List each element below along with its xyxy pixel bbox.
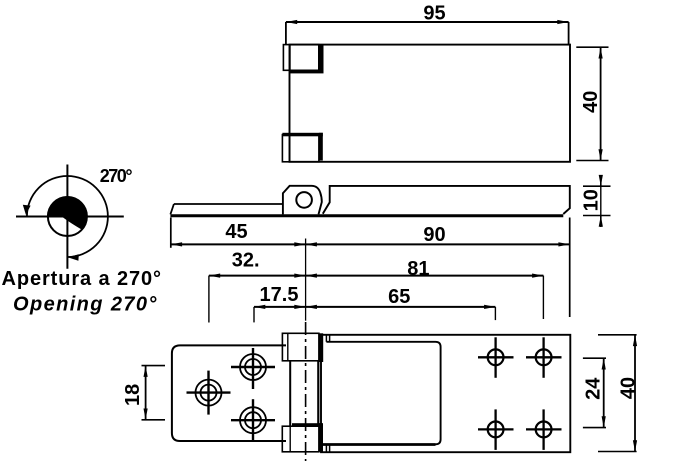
svg-text:65: 65 [388,286,410,308]
svg-text:270°: 270° [100,166,133,186]
svg-text:95: 95 [423,3,445,25]
svg-text:40: 40 [580,91,602,113]
svg-text:Opening 270°: Opening 270° [13,294,158,316]
svg-text:90: 90 [423,224,445,246]
svg-text:10: 10 [581,189,603,211]
svg-text:81: 81 [407,258,429,280]
svg-text:24: 24 [582,377,604,400]
svg-text:Apertura a 270°: Apertura a 270° [2,268,162,290]
svg-text:18: 18 [122,384,144,406]
svg-text:40: 40 [617,377,639,399]
svg-text:45: 45 [225,221,247,243]
svg-text:32.: 32. [232,250,260,272]
svg-text:17.5: 17.5 [260,284,299,306]
